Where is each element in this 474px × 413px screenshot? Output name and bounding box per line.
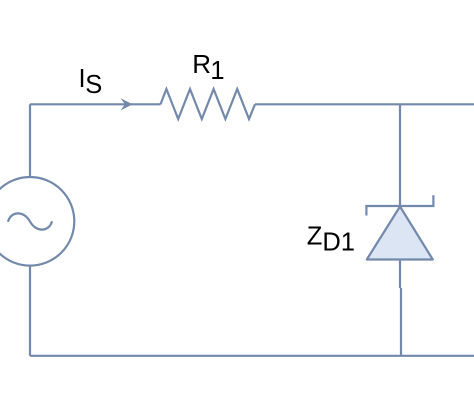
svg-text:S: S	[85, 71, 102, 99]
svg-text:1: 1	[210, 57, 224, 85]
current direction arrowhead	[121, 98, 133, 110]
wire: top rail right segment to right edge	[255, 103, 474, 105]
resistor R1 zigzag	[161, 89, 256, 119]
wire: zener anode stub	[399, 260, 401, 289]
label R1	[192, 49, 224, 85]
svg-text:Z: Z	[307, 222, 323, 250]
AC source sine wave	[8, 213, 52, 229]
zener diode ZD1 triangle	[367, 207, 433, 260]
label Is (current)	[79, 65, 103, 99]
svg-text:D1: D1	[322, 229, 355, 257]
wire: top-left vertical from source to top rail	[29, 104, 31, 177]
wire: vertical drop from top rail to zener	[399, 104, 401, 206]
wire: bottom-left vertical from source to bottom rail	[29, 266, 31, 356]
wire: top rail left segment to resistor	[30, 103, 161, 105]
svg-text:R: R	[192, 49, 211, 79]
AC source V1 circle	[0, 177, 74, 266]
wire: bottom rail to right edge	[30, 355, 474, 357]
wire: vertical from zener to bottom rail	[400, 288, 402, 356]
label ZD1	[307, 222, 355, 256]
zener diode ZD1 cathode bar with bent ends	[366, 195, 433, 215]
